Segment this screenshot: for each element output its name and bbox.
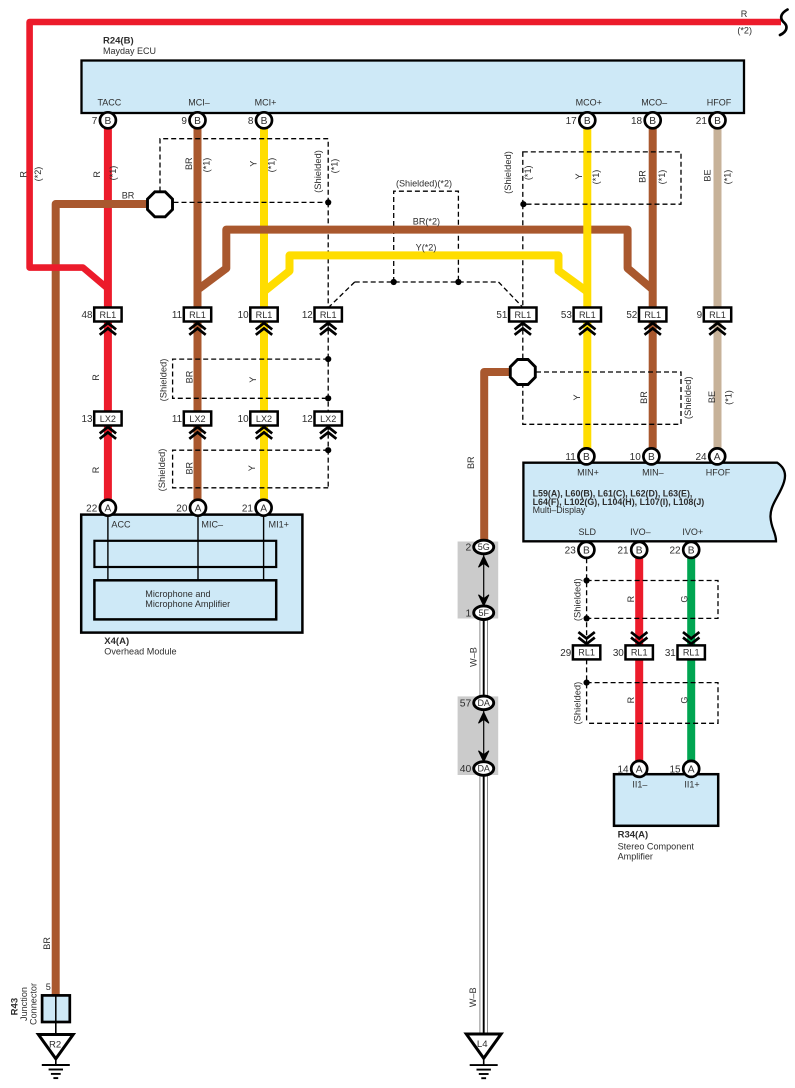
svg-text:BE: BE (703, 169, 713, 181)
svg-text:BE: BE (707, 391, 717, 403)
svg-text:LX2: LX2 (256, 414, 272, 424)
svg-text:Stereo Component: Stereo Component (618, 841, 695, 851)
chevron below LX2 10 (256, 427, 272, 439)
wire Y MCO+ vertical (583, 127, 591, 449)
pin 18 MCO- (631, 112, 661, 128)
svg-text:11: 11 (172, 414, 183, 425)
svg-text:30: 30 (613, 648, 624, 659)
wire: shield drain to RL1 51 (522, 204, 524, 307)
connector arrows DA-DA (479, 706, 489, 765)
module internal wires (108, 516, 264, 581)
svg-text:Y: Y (247, 465, 257, 471)
ground symbol under R2 (42, 1059, 70, 1079)
svg-text:Multi–Display: Multi–Display (533, 505, 586, 515)
svg-text:RL1: RL1 (631, 648, 648, 658)
wire BR from junction J1 down to R43 (56, 204, 150, 995)
svg-text:(Shielded): (Shielded) (158, 359, 169, 402)
connector LX2 pin 11 (172, 412, 211, 426)
svg-text:(*1): (*1) (523, 165, 533, 180)
svg-text:13: 13 (82, 414, 93, 425)
svg-text:(*2): (*2) (33, 167, 43, 182)
svg-text:A: A (714, 452, 721, 463)
chevron below LX2 13 (100, 427, 116, 439)
svg-text:(Shielded): (Shielded) (571, 578, 582, 621)
svg-text:A: A (688, 765, 695, 776)
svg-text:(*1): (*1) (267, 158, 277, 173)
svg-text:B: B (194, 116, 201, 127)
svg-text:(Shielded)(*2): (Shielded)(*2) (396, 178, 452, 188)
svg-text:RL1: RL1 (320, 310, 337, 320)
svg-text:R: R (92, 171, 102, 178)
svg-text:DA: DA (477, 698, 490, 708)
ECU R24(B) box (82, 61, 745, 114)
svg-text:R2: R2 (49, 1040, 61, 1051)
stereo component amplifier R34(A) box (614, 774, 718, 826)
chevron below RL1 11 (189, 323, 205, 335)
junction dots (325, 199, 331, 205)
svg-text:31: 31 (665, 648, 676, 659)
svg-text:A: A (636, 765, 643, 776)
pin 23 SLD (565, 542, 595, 558)
svg-text:Y: Y (248, 377, 258, 383)
svg-text:5: 5 (46, 982, 51, 992)
svg-text:ACC: ACC (111, 519, 131, 529)
svg-text:G: G (680, 697, 690, 704)
svg-text:RL1: RL1 (683, 648, 700, 658)
svg-text:MIN–: MIN– (642, 468, 664, 478)
svg-text:Y: Y (572, 394, 582, 400)
svg-text:HFOF: HFOF (707, 97, 732, 107)
connector DA pin 40 (460, 762, 494, 776)
chevron below LX2 11 (189, 427, 205, 439)
svg-text:Microphone and: Microphone and (145, 589, 210, 599)
connector RL1 pin 9 (697, 308, 732, 322)
svg-text:57: 57 (460, 699, 472, 710)
svg-text:(*1): (*1) (591, 170, 601, 185)
connector LX2 pin 12 (302, 412, 342, 426)
svg-text:R: R (626, 696, 636, 703)
pin 17 MCO+ (566, 112, 596, 128)
microphone amplifier block (94, 580, 276, 619)
junction J1 (noise filter) (148, 192, 173, 217)
svg-text:Y(*2): Y(*2) (416, 242, 437, 252)
svg-text:21: 21 (696, 116, 708, 127)
wire R trunk from top (30, 22, 781, 289)
svg-text:Connector: Connector (29, 983, 39, 1025)
svg-text:(*1): (*1) (330, 159, 340, 174)
svg-text:(Shielded): (Shielded) (312, 150, 323, 193)
svg-text:RL1: RL1 (100, 310, 117, 320)
svg-text:BR(*2): BR(*2) (413, 216, 440, 226)
svg-text:B: B (583, 452, 590, 463)
svg-text:52: 52 (626, 310, 637, 321)
svg-text:14: 14 (617, 765, 629, 776)
svg-text:RL1: RL1 (514, 310, 531, 320)
svg-text:22: 22 (86, 503, 98, 514)
chevron below RL1 10 (256, 323, 272, 335)
svg-text:BR: BR (42, 937, 52, 950)
wire: RL1 51 to junction (522, 322, 524, 359)
svg-text:12: 12 (302, 414, 313, 425)
chevron below RL1 12 (320, 323, 336, 335)
chevron below RL1 51 (515, 323, 531, 335)
svg-text:B: B (583, 546, 590, 557)
svg-text:Mayday ECU: Mayday ECU (103, 46, 156, 56)
svg-text:48: 48 (82, 310, 93, 321)
svg-text:MCO–: MCO– (641, 97, 667, 107)
svg-text:A: A (260, 503, 267, 514)
wire BE HFOF vertical (714, 127, 722, 449)
svg-text:53: 53 (561, 310, 572, 321)
pin 22 ACC (86, 500, 116, 516)
wire W-B from DA down to ground L4 (480, 769, 488, 1035)
wire break symbol (780, 10, 788, 36)
svg-text:24: 24 (695, 452, 707, 463)
svg-text:20: 20 (176, 503, 188, 514)
wire G IVO+ (687, 558, 695, 761)
overhead module X4(A) box (81, 515, 302, 633)
connector band 5G/5F (458, 542, 499, 619)
connector RL1 pin 10 (238, 308, 278, 322)
junction connector R43 box (42, 995, 70, 1022)
svg-text:L4: L4 (477, 1039, 488, 1050)
svg-text:10: 10 (238, 310, 249, 321)
svg-text:BR: BR (184, 461, 194, 474)
wire R TACC vertical (104, 127, 112, 507)
svg-text:15: 15 (669, 765, 681, 776)
svg-text:A: A (105, 503, 112, 514)
svg-text:9: 9 (181, 116, 187, 127)
svg-text:10: 10 (238, 414, 249, 425)
connector LX2 pin 13 (82, 412, 122, 426)
pin 20 MIC- (176, 500, 206, 516)
chevron above RL1 30 (631, 632, 647, 644)
shielded box above multi-display (523, 372, 681, 424)
svg-text:(*1): (*1) (108, 166, 118, 181)
svg-text:W–B: W–B (468, 987, 478, 1007)
svg-text:9: 9 (697, 310, 703, 321)
pin 21 MI1+ (242, 500, 272, 516)
svg-text:BR: BR (184, 370, 194, 383)
svg-text:R: R (626, 595, 636, 602)
svg-text:12: 12 (302, 310, 313, 321)
svg-text:Y: Y (249, 161, 259, 167)
svg-text:11: 11 (565, 452, 576, 463)
svg-text:LX2: LX2 (100, 414, 116, 424)
svg-text:BR: BR (122, 191, 135, 201)
svg-text:RL1: RL1 (256, 310, 273, 320)
connector RL1 pin 12 (302, 308, 342, 322)
svg-text:MCI+: MCI+ (255, 97, 277, 107)
pin 21 HFOF (696, 112, 726, 128)
svg-text:(*1): (*1) (657, 170, 667, 185)
chevron above RL1 29 (578, 632, 594, 644)
svg-text:Y: Y (574, 173, 584, 179)
svg-text:BR: BR (638, 170, 648, 183)
svg-text:R: R (91, 374, 101, 381)
pin 7 TACC (92, 112, 116, 128)
svg-text:R: R (91, 466, 101, 473)
wire R IVO- (635, 558, 643, 761)
svg-text:MCO+: MCO+ (576, 97, 602, 107)
svg-text:Microphone Amplifier: Microphone Amplifier (145, 599, 230, 609)
node: shield drain column 12 (327, 202, 329, 307)
connector RL1 pin 30 (613, 645, 653, 659)
svg-text:2: 2 (466, 543, 472, 554)
svg-text:G: G (680, 596, 690, 603)
svg-text:IVO–: IVO– (630, 527, 651, 537)
wire: shield drain bus (355, 281, 499, 283)
wire Y(*2) branch (264, 255, 587, 291)
pin 10 MIN- (630, 448, 660, 464)
connector arrows 5G-5F (479, 550, 489, 609)
wire: SLD dashed (586, 558, 588, 645)
connector 5G pin 2 (466, 540, 494, 554)
svg-text:10: 10 (630, 452, 642, 463)
svg-text:23: 23 (565, 546, 577, 557)
module inner block (94, 541, 276, 567)
svg-text:B: B (649, 116, 656, 127)
svg-text:LX2: LX2 (189, 414, 205, 424)
svg-text:R: R (19, 171, 29, 178)
svg-text:A: A (195, 503, 202, 514)
svg-text:SLD: SLD (578, 527, 596, 537)
svg-text:BR: BR (466, 456, 476, 469)
svg-text:7: 7 (92, 116, 98, 127)
chevron below RL1 52 (645, 323, 661, 335)
pin 22 IVO+ (669, 542, 699, 558)
pin 9 MCI- (181, 112, 205, 128)
svg-text:BR: BR (184, 157, 194, 170)
svg-text:11: 11 (172, 310, 183, 321)
svg-text:B: B (648, 452, 655, 463)
svg-text:(Shielded): (Shielded) (156, 449, 167, 492)
multi-display box (523, 463, 785, 542)
connector RL1 pin 51 (496, 308, 536, 322)
pin 24 HFOF (695, 448, 725, 464)
wire: SLD dashed below RL1 29 (586, 659, 588, 723)
chevron below LX2 12 (320, 427, 336, 439)
svg-text:(*1): (*1) (202, 158, 212, 173)
svg-text:Amplifier: Amplifier (618, 852, 653, 862)
svg-text:B: B (636, 546, 643, 557)
connector RL1 pin 11 (172, 308, 211, 322)
svg-text:BR: BR (639, 391, 649, 404)
pin 21 IVO- (617, 542, 647, 558)
connector RL1 pin 48 (82, 308, 122, 322)
svg-text:8: 8 (248, 116, 254, 127)
wire Y MCI+ vertical (260, 127, 268, 507)
pin 15 II1+ (669, 761, 699, 777)
wire BR MCI- vertical (194, 127, 202, 507)
wire BR(*2) branch (198, 230, 653, 290)
svg-text:17: 17 (566, 116, 578, 127)
svg-text:(Shielded): (Shielded) (682, 376, 693, 419)
shielded(*2) box (394, 191, 459, 282)
svg-text:MI1+: MI1+ (269, 519, 289, 529)
svg-text:RL1: RL1 (579, 310, 596, 320)
svg-text:DA: DA (477, 764, 490, 774)
wire R43 to ground triangle (55, 1022, 57, 1035)
svg-text:R: R (741, 9, 748, 19)
svg-text:B: B (714, 116, 721, 127)
ground triangle R2 (38, 1035, 73, 1059)
ground symbol under L4 (470, 1059, 498, 1079)
connector LX2 pin 10 (238, 412, 278, 426)
svg-text:(Shielded): (Shielded) (571, 682, 582, 725)
chevron below RL1 53 (579, 323, 595, 335)
chevron below RL1 9 (709, 323, 725, 335)
svg-text:II1+: II1+ (684, 780, 699, 790)
svg-text:LX2: LX2 (320, 414, 336, 424)
svg-text:21: 21 (242, 503, 254, 514)
shielded box around MCO wires (523, 152, 681, 204)
svg-text:MCI–: MCI– (188, 97, 210, 107)
svg-text:(Shielded): (Shielded) (502, 151, 513, 194)
svg-text:B: B (688, 546, 695, 557)
wire W-B between 5F and DA (480, 613, 488, 703)
svg-text:II1–: II1– (632, 780, 647, 790)
connector RL1 pin 29 (560, 645, 600, 659)
svg-text:21: 21 (617, 546, 629, 557)
connector RL1 pin 31 (665, 645, 705, 659)
svg-text:5F: 5F (478, 608, 489, 618)
svg-text:TACC: TACC (97, 97, 121, 107)
svg-text:RL1: RL1 (189, 310, 206, 320)
svg-text:B: B (105, 116, 112, 127)
svg-text:HFOF: HFOF (706, 468, 731, 478)
svg-text:22: 22 (669, 546, 681, 557)
svg-text:RL1: RL1 (644, 310, 661, 320)
svg-text:40: 40 (460, 764, 472, 775)
svg-text:18: 18 (631, 116, 643, 127)
connector RL1 pin 52 (626, 308, 666, 322)
connector DA pin 57 (460, 696, 494, 710)
chevron above RL1 31 (683, 632, 699, 644)
pin 8 MCI+ (248, 112, 272, 128)
shielded box around MCI wires (160, 139, 328, 203)
svg-text:R24(B): R24(B) (103, 36, 134, 47)
svg-text:IVO+: IVO+ (682, 527, 703, 537)
junction J2 (noise filter) (510, 360, 535, 385)
svg-text:B: B (584, 116, 591, 127)
svg-text:W–B: W–B (469, 647, 479, 667)
connector RL1 pin 53 (561, 308, 601, 322)
svg-text:(*1): (*1) (723, 170, 733, 185)
shielded box between LX2 and overhead module (173, 450, 329, 488)
svg-text:(*2): (*2) (737, 25, 752, 35)
svg-text:MIC–: MIC– (201, 519, 224, 529)
svg-text:51: 51 (496, 310, 507, 321)
chevron below RL1 48 (100, 323, 116, 335)
pin 11 MIN+ (565, 448, 594, 464)
svg-text:5G: 5G (478, 542, 490, 552)
wire BR from junction J2 to 5G (484, 372, 534, 540)
pin 14 II1- (617, 761, 647, 777)
svg-text:(*1): (*1) (724, 390, 734, 405)
connector band DA/DA (458, 696, 499, 775)
svg-text:1: 1 (466, 608, 472, 619)
shielded box IVO upper (587, 581, 718, 619)
ground triangle L4 (466, 1034, 501, 1058)
svg-text:Overhead Module: Overhead Module (104, 647, 176, 657)
connector 5F pin 1 (466, 606, 494, 620)
shielded box IVO lower (587, 683, 718, 724)
svg-text:RL1: RL1 (578, 648, 595, 658)
svg-text:29: 29 (560, 648, 571, 659)
wire BR MCO- vertical (649, 127, 657, 449)
svg-text:R34(A): R34(A) (618, 830, 649, 841)
svg-text:B: B (261, 116, 268, 127)
shielded box between RL1 and LX2 (left) (173, 359, 329, 398)
svg-text:RL1: RL1 (709, 310, 726, 320)
svg-text:MIN+: MIN+ (577, 468, 599, 478)
